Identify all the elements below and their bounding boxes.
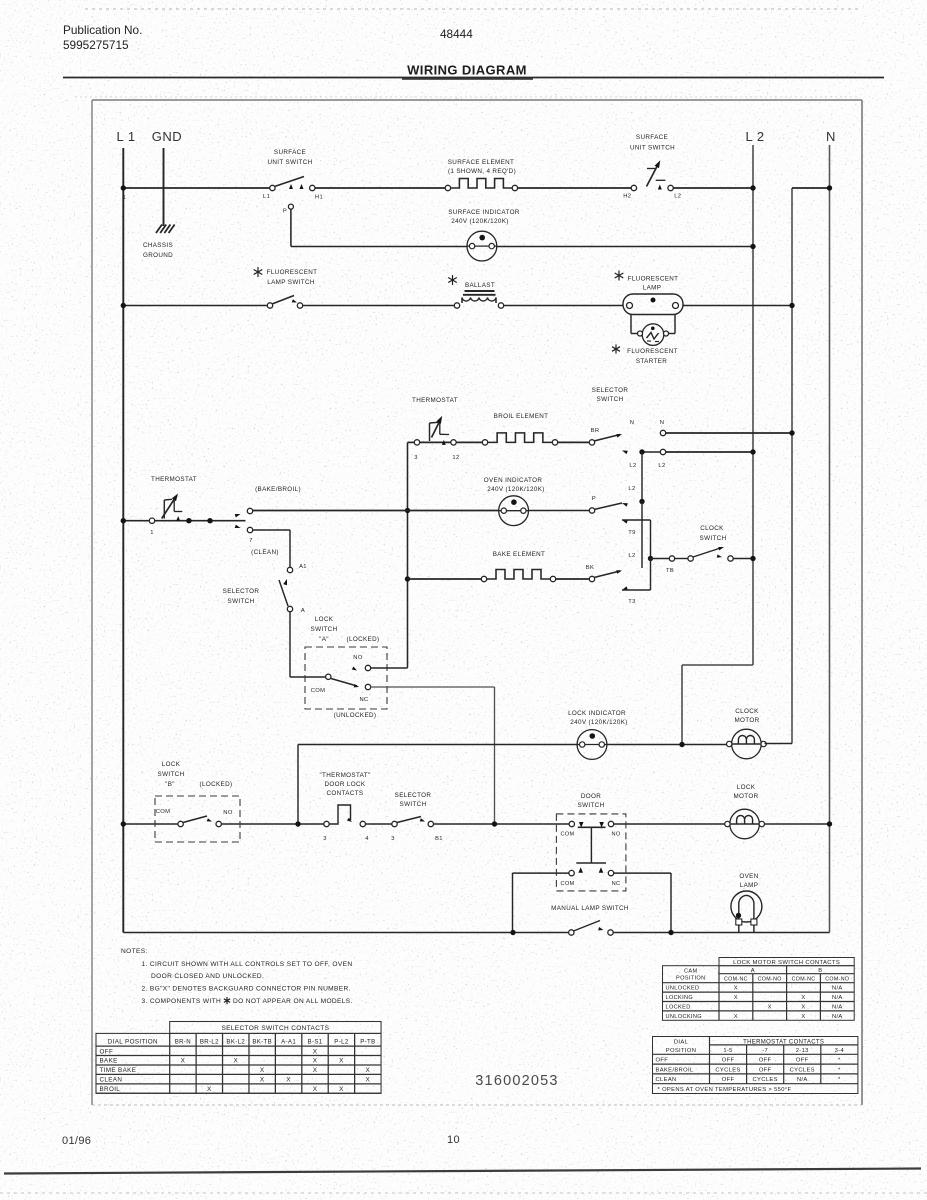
svg-text:LOCKED: LOCKED (666, 1005, 691, 1011)
clock switch S2 (669, 547, 733, 561)
wire thermostat-to-selector left vertical (407, 442, 409, 666)
scan edge artifact top (85, 8, 860, 10)
surface element R1 (445, 179, 517, 191)
fluorescent starter (638, 324, 669, 346)
svg-text:T3: T3 (628, 599, 635, 605)
wire surface indicator rung (291, 246, 753, 248)
svg-text:240V (120K/120K): 240V (120K/120K) (487, 486, 544, 493)
P terminal label (592, 496, 596, 502)
wire A contact down to lock switch A (290, 612, 326, 677)
svg-text:UNLOCKING: UNLOCKING (666, 1014, 702, 1020)
wire top rung L1 to L2 (123, 187, 753, 189)
oven indicator lamp DS2 (499, 496, 529, 526)
locked label A (347, 636, 380, 643)
right switch terminal labels H2 L2 (623, 194, 681, 200)
svg-text:A-A1: A-A1 (281, 1038, 296, 1045)
outer diagram border (92, 100, 862, 1105)
ballast label (465, 282, 495, 289)
surface element label (448, 159, 516, 175)
lock motor switch contacts table (663, 958, 855, 1021)
svg-text:N/A: N/A (832, 1014, 843, 1020)
selector T3 contact bracket (622, 559, 651, 591)
lock motor label (733, 784, 758, 800)
svg-text:"A": "A" (319, 636, 329, 643)
svg-text:L2: L2 (629, 463, 636, 469)
svg-text:3: 3 (414, 455, 418, 461)
svg-text:FLUORESCENT: FLUORESCENT (267, 269, 318, 276)
ballast T1 (454, 291, 503, 308)
svg-text:COM-NO: COM-NO (758, 977, 782, 983)
svg-text:12: 12 (452, 455, 459, 461)
BR terminal label (591, 428, 600, 434)
svg-text:LAMP SWITCH: LAMP SWITCH (267, 279, 315, 286)
svg-text:DIAL POSITION: DIAL POSITION (108, 1038, 158, 1045)
svg-text:CONTACTS: CONTACTS (327, 790, 364, 797)
svg-text:*: * (838, 1077, 841, 1083)
svg-text:3. COMPONENTS WITH: 3. COMPONENTS WITH (142, 998, 222, 1005)
svg-text:X: X (260, 1077, 265, 1084)
svg-text:SURFACE INDICATOR: SURFACE INDICATOR (448, 209, 520, 216)
svg-text:X: X (768, 1005, 772, 1011)
selector switch (top right) label (592, 387, 629, 403)
surface switch terminal labels L1 H1 P (263, 194, 323, 215)
selector L2 labels (629, 463, 665, 469)
svg-text:X: X (734, 986, 738, 992)
wire N bus vertical (829, 145, 831, 933)
wire clock motor to N branch (765, 743, 793, 745)
door switch lower COM NC labels (560, 881, 620, 887)
svg-text:OVEN INDICATOR: OVEN INDICATOR (484, 477, 543, 484)
asterisk ballast (448, 275, 457, 285)
svg-text:(UNLOCKED): (UNLOCKED) (334, 712, 377, 719)
svg-text:BR-L2: BR-L2 (200, 1038, 219, 1045)
junction L2 top (750, 185, 755, 190)
selector switch (door) label (395, 792, 432, 808)
junction vertical 298 (295, 821, 300, 826)
fluorescent lamp switch (267, 296, 302, 309)
title underline rule (63, 78, 884, 80)
surface indicator lamp DS1 (467, 231, 497, 261)
svg-text:NC: NC (612, 881, 621, 887)
svg-text:OFF: OFF (759, 1058, 772, 1064)
svg-text:SURFACE: SURFACE (274, 149, 306, 156)
svg-text:L2: L2 (628, 486, 635, 492)
svg-text:BAKE/BROIL: BAKE/BROIL (656, 1067, 694, 1073)
surface indicator label (448, 209, 520, 225)
svg-text:N/A: N/A (832, 1005, 843, 1011)
main thermostat label (151, 476, 197, 483)
svg-text:NO: NO (223, 810, 233, 816)
svg-text:POSITION: POSITION (676, 976, 706, 982)
svg-text:X: X (313, 1058, 318, 1065)
svg-text:SELECTOR: SELECTOR (223, 588, 260, 595)
svg-text:CYCLES: CYCLES (790, 1067, 815, 1073)
COM label A (311, 688, 326, 694)
selector bake/broil contact (235, 508, 253, 517)
wire lower NC right down to bottom rung (614, 873, 671, 933)
svg-text:(LOCKED): (LOCKED) (200, 781, 233, 788)
svg-text:OFF: OFF (759, 1067, 772, 1073)
A1 label (299, 564, 307, 570)
svg-text:L 1: L 1 (116, 129, 135, 144)
wire lock A NO to vertical (371, 666, 408, 668)
svg-text:SELECTOR: SELECTOR (395, 792, 432, 799)
junction oven indicator rung (405, 508, 410, 513)
svg-text:LOCKING: LOCKING (666, 995, 694, 1001)
svg-text:2-13: 2-13 (796, 1048, 809, 1054)
wire lock A NC right then down (371, 687, 495, 824)
title WIRING DIAGRAM (407, 63, 527, 78)
lock switch A label (311, 616, 338, 643)
lock indicator lamp DS3 (577, 730, 607, 760)
wire lock indicator rung (298, 744, 731, 746)
svg-text:X: X (313, 1048, 318, 1055)
svg-text:COM-NO: COM-NO (825, 977, 849, 983)
junction L1 lock B rung (121, 821, 126, 826)
svg-text:A1: A1 (299, 564, 307, 570)
footer page number 10 (447, 1134, 460, 1146)
fluorescent lamp FL1 (623, 294, 683, 334)
svg-text:STARTER: STARTER (636, 358, 667, 365)
wire rung corner down to lock B rung (297, 745, 299, 825)
oven indicator label (484, 477, 545, 493)
junction N lock motor (827, 821, 832, 826)
junction vertical 497 (492, 821, 497, 826)
svg-text:COM: COM (311, 688, 326, 694)
thermostat switch (broil) (414, 416, 456, 445)
svg-text:NOTES:: NOTES: (121, 948, 148, 955)
svg-text:P: P (283, 209, 287, 215)
svg-text:UNLOCKED: UNLOCKED (666, 986, 700, 992)
svg-text:X: X (801, 1014, 805, 1020)
BK terminal label (586, 565, 594, 571)
svg-text:X: X (260, 1067, 265, 1074)
svg-text:X: X (734, 995, 738, 1001)
svg-text:OFF: OFF (722, 1077, 735, 1083)
svg-text:(LOCKED): (LOCKED) (347, 636, 380, 643)
wire bake rung (408, 578, 593, 580)
chassis ground label (143, 242, 173, 259)
svg-text:SURFACE: SURFACE (636, 134, 668, 141)
svg-text:SWITCH: SWITCH (578, 802, 605, 809)
svg-text:MOTOR: MOTOR (733, 793, 758, 800)
svg-text:COM: COM (156, 809, 171, 815)
svg-text:MOTOR: MOTOR (734, 717, 759, 724)
lock switch B dashed enclosure (155, 796, 240, 842)
broil element label (494, 413, 549, 420)
svg-text:X: X (801, 1005, 805, 1011)
door switch label (578, 793, 605, 809)
svg-text:X: X (286, 1077, 291, 1084)
svg-text:10: 10 (447, 1134, 460, 1146)
svg-text:X: X (366, 1077, 371, 1084)
svg-text:3-4: 3-4 (835, 1048, 845, 1054)
svg-text:2. BG"X" DENOTES BACKGUARD CO: 2. BG"X" DENOTES BACKGUARD CONNECTOR PIN… (142, 986, 351, 993)
wire broil rung (408, 441, 593, 443)
svg-text:P-L2: P-L2 (334, 1038, 349, 1045)
asterisk fluorescent starter (612, 344, 620, 353)
oven lamp label (739, 873, 758, 889)
svg-text:4: 4 (365, 836, 369, 842)
svg-text:L1: L1 (263, 194, 270, 200)
svg-text:SURFACE ELEMENT: SURFACE ELEMENT (448, 159, 514, 166)
svg-text:1. CIRCUIT SHOWN WITH ALL CON: 1. CIRCUIT SHOWN WITH ALL CONTROLS SET T… (142, 961, 353, 968)
svg-text:FLUORESCENT: FLUORESCENT (627, 348, 678, 355)
selector blade BR (589, 434, 628, 454)
svg-text:LOCK: LOCK (737, 784, 756, 791)
svg-text:SELECTOR SWITCH CONTACTS: SELECTOR SWITCH CONTACTS (221, 1025, 329, 1032)
svg-text:OFF: OFF (722, 1058, 735, 1064)
svg-text:BROIL ELEMENT: BROIL ELEMENT (494, 413, 549, 420)
svg-text:N/A: N/A (797, 1077, 808, 1083)
svg-text:A: A (301, 608, 305, 614)
svg-text:BR: BR (591, 428, 600, 434)
svg-text:N: N (660, 420, 665, 426)
svg-text:CYCLES: CYCLES (715, 1067, 740, 1073)
svg-text:OFF: OFF (100, 1048, 114, 1055)
svg-text:(1 SHOWN, 4 REQ'D): (1 SHOWN, 4 REQ'D) (448, 168, 516, 175)
selector A1-A contacts (279, 567, 293, 611)
oven lamp junction blob (736, 913, 741, 918)
svg-text:1-5: 1-5 (723, 1048, 732, 1054)
broil element R2 (482, 433, 557, 445)
node N label (826, 129, 836, 144)
junction L2 jog on rung (679, 742, 684, 747)
publication number text (63, 23, 142, 52)
bake element R3 (481, 570, 555, 582)
asterisk fluorescent lamp (615, 271, 624, 281)
wire bottom rung (123, 932, 829, 934)
svg-text:H2: H2 (623, 194, 631, 200)
junction L2 indicator rung (750, 244, 755, 249)
svg-text:OFF: OFF (656, 1058, 669, 1064)
svg-text:N/A: N/A (832, 995, 843, 1001)
door switch dashed enclosure (556, 814, 626, 891)
svg-text:THERMOSTAT: THERMOSTAT (151, 476, 197, 483)
manual lamp switch label (551, 905, 629, 912)
junction L1 thermostat rung (121, 518, 126, 523)
svg-text:L2: L2 (674, 194, 681, 200)
svg-text:316002053: 316002053 (475, 1073, 558, 1089)
junction N-branch fluorescent (789, 303, 794, 308)
lock switch A contacts (326, 665, 371, 689)
svg-text:LOCK: LOCK (315, 616, 334, 623)
svg-text:T9: T9 (628, 530, 635, 536)
junction bottom 671 (668, 930, 673, 935)
scan edge artifact bottom (0, 1192, 927, 1194)
svg-text:X: X (313, 1067, 318, 1074)
svg-text:* OPENS AT OVEN TEMPERATURES >: * OPENS AT OVEN TEMPERATURES > 550°F (658, 1087, 792, 1093)
svg-text:48444: 48444 (440, 27, 473, 41)
svg-text:X: X (313, 1086, 318, 1093)
svg-text:BK: BK (586, 565, 594, 571)
svg-text:P-TB: P-TB (360, 1038, 375, 1045)
selector switch (door) contacts (392, 817, 434, 827)
wire L1 bus vertical (122, 148, 124, 933)
svg-text:UNIT SWITCH: UNIT SWITCH (630, 145, 675, 152)
svg-text:WIRING DIAGRAM: WIRING DIAGRAM (407, 63, 527, 78)
svg-text:B: B (818, 968, 822, 974)
svg-text:LAMP: LAMP (740, 882, 759, 889)
svg-text:BR-N: BR-N (175, 1038, 191, 1045)
node L2 label (745, 129, 764, 144)
oven lamp DS4 (731, 891, 762, 933)
thermostat terminal labels 3 12 (414, 455, 459, 461)
selector L2 contact and wire to L2 bus (639, 449, 755, 454)
svg-text:CLEAN: CLEAN (100, 1077, 123, 1084)
fluorescent starter label (627, 348, 678, 365)
svg-text:DIAL: DIAL (674, 1039, 689, 1045)
svg-text:GND: GND (152, 129, 182, 144)
wire lock B rung (123, 823, 829, 825)
lock switch A dashed enclosure (305, 647, 387, 709)
svg-text:NO: NO (611, 832, 620, 838)
svg-text:BAKE: BAKE (100, 1058, 118, 1065)
svg-text:NC: NC (359, 697, 368, 703)
surface unit switch (left) (270, 177, 315, 247)
part number 316002053 (475, 1073, 558, 1089)
TB terminal label (666, 568, 674, 574)
svg-text:BROIL: BROIL (100, 1086, 121, 1093)
lock motor M2 (725, 809, 765, 839)
svg-text:SWITCH: SWITCH (597, 396, 624, 403)
svg-text:(CLEAN): (CLEAN) (251, 549, 279, 556)
terminal labels 3 B1 (391, 836, 443, 842)
COM label B (156, 809, 171, 815)
svg-text:LOCK: LOCK (162, 761, 181, 768)
svg-text:LOCK MOTOR SWITCH CONTACTS: LOCK MOTOR SWITCH CONTACTS (733, 960, 840, 966)
door switch upper contacts (569, 821, 614, 863)
clock motor M1 (727, 729, 767, 759)
manual lamp switch (569, 921, 614, 936)
junction L1 fluorescent (121, 303, 126, 308)
svg-text:B1: B1 (435, 836, 443, 842)
fluorescent lamp switch label (267, 269, 318, 286)
svg-text:DOOR LOCK: DOOR LOCK (325, 781, 366, 788)
notes block (121, 948, 353, 1005)
node GND label (152, 129, 182, 144)
clock switch label (700, 525, 727, 542)
terminal label 1 (150, 530, 154, 536)
svg-text:GROUND: GROUND (143, 252, 173, 259)
svg-text:TB: TB (666, 568, 674, 574)
svg-text:B-S1: B-S1 (308, 1038, 323, 1045)
svg-text:BK-TB: BK-TB (252, 1038, 272, 1045)
selector switch contacts table (96, 1022, 381, 1094)
svg-text:MANUAL LAMP SWITCH: MANUAL LAMP SWITCH (551, 905, 629, 912)
wire fluorescent rung (123, 305, 792, 307)
svg-text:CYCLES: CYCLES (753, 1077, 778, 1083)
svg-text:NO: NO (353, 655, 363, 661)
svg-text:POSITION: POSITION (666, 1048, 697, 1054)
svg-text:L2: L2 (628, 553, 635, 559)
clock motor label (734, 708, 759, 724)
svg-text:BAKE ELEMENT: BAKE ELEMENT (493, 551, 546, 558)
svg-text:TIME BAKE: TIME BAKE (100, 1067, 137, 1074)
svg-text:7: 7 (249, 538, 253, 544)
svg-text:DOOR: DOOR (581, 793, 601, 800)
svg-text:CHASSIS: CHASSIS (143, 242, 173, 249)
svg-text:X: X (734, 1014, 738, 1020)
svg-text:COM: COM (560, 881, 574, 887)
wire main thermostat rung (123, 520, 245, 522)
svg-text:BALLAST: BALLAST (465, 282, 495, 289)
NO label A (353, 655, 363, 661)
svg-text:Publication No.: Publication No. (63, 23, 142, 37)
svg-text:3: 3 (323, 836, 327, 842)
svg-text:CLEAN: CLEAN (656, 1077, 677, 1083)
selector clean contact (235, 525, 290, 567)
svg-text:X: X (207, 1086, 212, 1093)
chassis ground symbol (156, 225, 175, 234)
svg-text:CAM: CAM (684, 969, 697, 975)
svg-text:X: X (801, 995, 805, 1001)
selector P contact (589, 503, 628, 513)
svg-text:P: P (592, 496, 596, 502)
svg-text:LOCK INDICATOR: LOCK INDICATOR (568, 710, 626, 717)
svg-text:DO NOT APPEAR ON ALL MODELS.: DO NOT APPEAR ON ALL MODELS. (233, 998, 353, 1005)
main oven thermostat switch (149, 494, 212, 524)
thermostat contacts table (653, 1037, 858, 1094)
surface unit switch (right) (631, 160, 673, 190)
asterisk fluorescent lamp switch (254, 267, 263, 277)
junction bottom 513 (510, 930, 515, 935)
svg-text:THERMOSTAT: THERMOSTAT (412, 397, 458, 404)
svg-text:L 2: L 2 (745, 129, 764, 144)
thermostat (broil) label (412, 397, 458, 404)
svg-text:LAMP: LAMP (643, 285, 662, 292)
svg-text:N: N (826, 129, 836, 144)
surface unit switch (right) label (630, 134, 675, 152)
svg-text:5995275715: 5995275715 (63, 38, 129, 52)
L2 label bake contact (628, 553, 635, 559)
svg-text:H1: H1 (315, 195, 323, 201)
lock switch B contacts (178, 816, 221, 827)
svg-text:A: A (751, 968, 755, 974)
svg-text:SELECTOR: SELECTOR (592, 387, 629, 394)
svg-text:UNIT SWITCH: UNIT SWITCH (267, 159, 312, 166)
svg-text:CLOCK: CLOCK (700, 525, 724, 532)
svg-text:SWITCH: SWITCH (228, 598, 255, 605)
selector N contact and wire to N branch (660, 430, 794, 435)
junction L1 top (121, 185, 127, 201)
wire N branch vertical (models wire) (792, 188, 830, 744)
selector bake blade (589, 570, 622, 582)
node L1 label (116, 129, 135, 144)
svg-text:SWITCH: SWITCH (158, 771, 185, 778)
svg-text:"THERMOSTAT": "THERMOSTAT" (319, 772, 370, 779)
svg-text:N: N (630, 420, 635, 426)
unlocked label A (334, 712, 377, 719)
wire clock switch rung (651, 556, 756, 561)
svg-text:COM-NC: COM-NC (724, 977, 748, 983)
svg-text:L2: L2 (658, 463, 665, 469)
wire oven indicator rung (252, 510, 592, 512)
svg-text:OVEN: OVEN (739, 873, 758, 880)
svg-text:N/A: N/A (832, 986, 843, 992)
selector switch label (left) (223, 588, 260, 605)
svg-text:X: X (366, 1067, 371, 1074)
door switch COM NO labels (560, 832, 620, 838)
svg-text:SWITCH: SWITCH (700, 535, 727, 542)
locked label B (200, 781, 233, 788)
wire L2 bus jog to lock indicator (682, 665, 753, 745)
document number 48444 (440, 27, 473, 41)
svg-text:X: X (339, 1086, 344, 1093)
svg-text:1: 1 (123, 195, 126, 201)
fluorescent lamp label (628, 276, 679, 292)
svg-text:*: * (838, 1058, 841, 1064)
